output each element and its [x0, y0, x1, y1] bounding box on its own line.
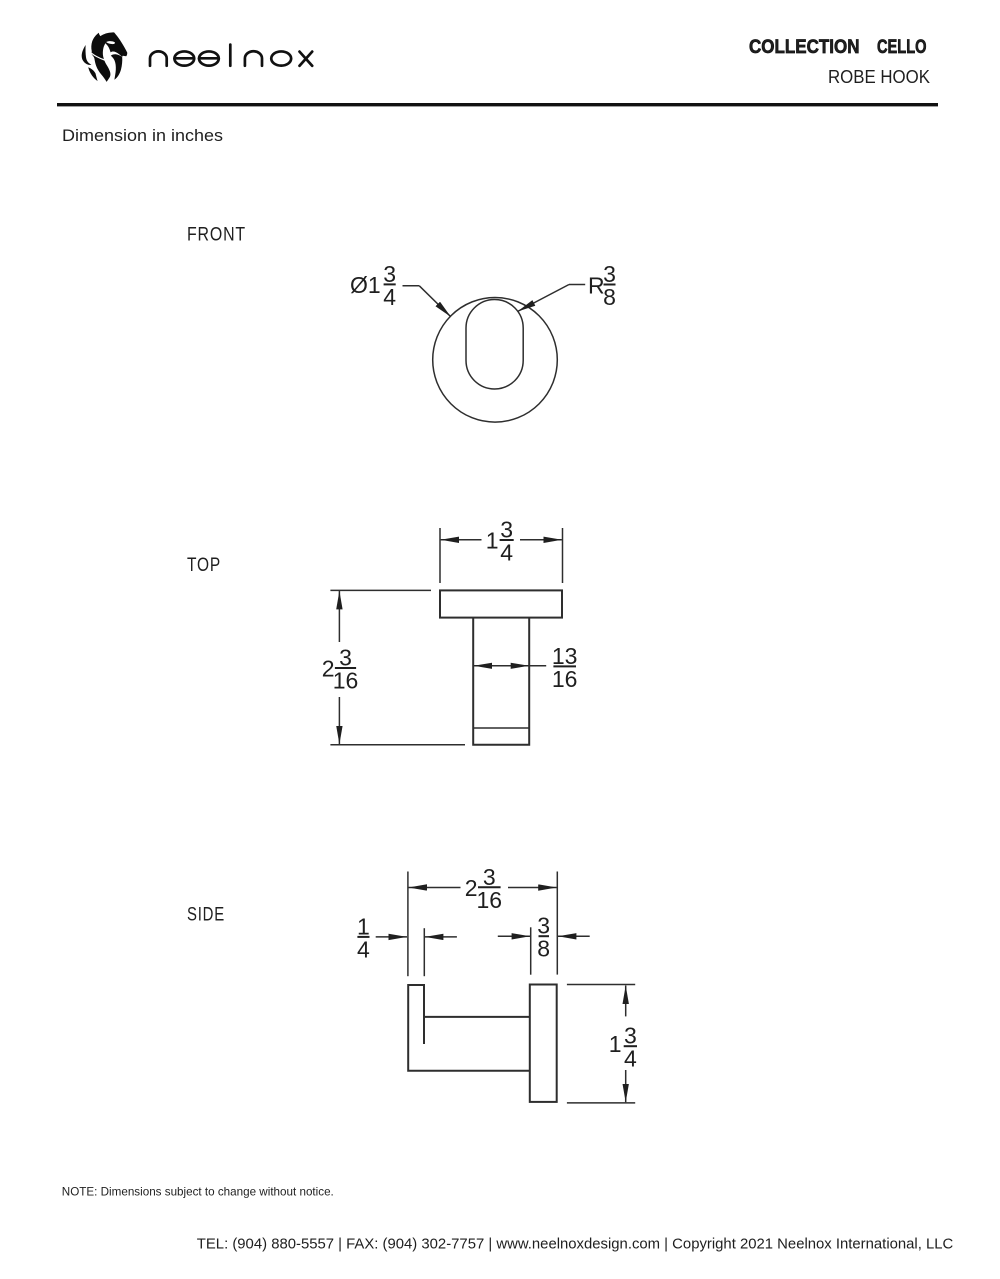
svg-text:8: 8	[537, 936, 550, 962]
svg-text:4: 4	[357, 936, 370, 962]
top view stem	[473, 618, 529, 745]
dimension 1 3/4 side height	[567, 985, 637, 1103]
logo wordmark neelnox	[150, 45, 312, 66]
svg-text:COLLECTION: COLLECTION	[749, 36, 860, 58]
svg-text:16: 16	[552, 666, 578, 692]
svg-text:4: 4	[500, 540, 513, 566]
svg-text:4: 4	[383, 284, 396, 310]
svg-text:1: 1	[486, 528, 499, 554]
svg-text:CELLO: CELLO	[877, 36, 927, 58]
header rule	[57, 103, 938, 106]
top view stem cap line	[473, 727, 529, 729]
svg-text:SIDE: SIDE	[187, 905, 225, 926]
logo horse head	[82, 32, 128, 82]
front view circle	[433, 298, 558, 423]
dimension 1 3/4 top	[440, 517, 563, 584]
svg-text:TEL: (904) 880-5557 | FAX: (90: TEL: (904) 880-5557 | FAX: (904) 302-775…	[197, 1236, 954, 1253]
svg-text:TOP: TOP	[187, 555, 221, 576]
dimension 2 3/16 top view	[322, 590, 465, 744]
dimension 13/16 stem width	[474, 643, 578, 692]
svg-text:ROBE HOOK: ROBE HOOK	[828, 66, 931, 87]
top view flange	[440, 590, 562, 617]
dimension 1/4 hook tip	[357, 913, 457, 976]
leader diameter label	[350, 261, 451, 317]
svg-text:16: 16	[333, 668, 359, 694]
svg-text:FRONT: FRONT	[187, 225, 246, 246]
side view arm top line	[424, 1016, 530, 1018]
svg-text:NOTE: Dimensions subject to ch: NOTE: Dimensions subject to change witho…	[62, 1185, 334, 1199]
svg-text:4: 4	[624, 1046, 637, 1072]
dimension 2 3/16 side view	[408, 864, 557, 976]
svg-text:16: 16	[477, 887, 503, 913]
svg-text:Ø1: Ø1	[350, 272, 381, 298]
svg-text:8: 8	[603, 284, 616, 310]
side view hook body	[408, 985, 530, 1071]
side view wall flange	[530, 985, 557, 1102]
front view stadium slot	[466, 300, 523, 390]
dimension 3/8 flange thickness	[498, 913, 590, 975]
svg-text:1: 1	[609, 1031, 622, 1057]
svg-text:Dimension in inches: Dimension in inches	[62, 126, 223, 145]
leader radius label	[518, 261, 616, 312]
